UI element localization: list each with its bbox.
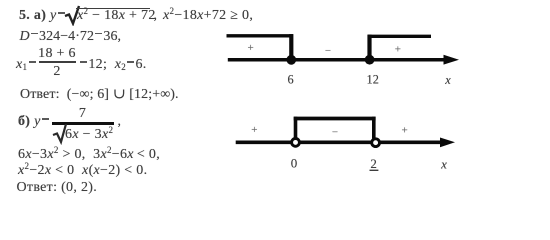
comma after radical bbox=[154, 9, 158, 23]
open circle at 2 bbox=[372, 139, 380, 147]
svg-text:+: + bbox=[395, 44, 401, 56]
svg-text:−: − bbox=[332, 127, 338, 139]
line 7 bbox=[18, 164, 147, 178]
thick fraction bar bbox=[52, 122, 113, 125]
svg-text:0: 0 bbox=[291, 155, 298, 170]
radicand x^2-18x+72 bbox=[77, 9, 156, 23]
line 8: answer b bbox=[17, 181, 98, 195]
radical sign line 1 bbox=[64, 4, 84, 26]
axis arrowhead bbox=[440, 138, 455, 148]
diagram 1: sign chart for x^2-18x+72 bbox=[220, 28, 465, 90]
svg-text:x: x bbox=[444, 73, 451, 87]
axis bbox=[228, 58, 448, 62]
box right wire bbox=[372, 117, 376, 139]
vinculum line 1 bbox=[76, 8, 150, 9]
=12; x2=6. bbox=[79, 58, 147, 72]
svg-text:+: + bbox=[247, 42, 253, 54]
line 3: x1 = (18+6)/2 = 12; x2=6. bbox=[16, 58, 37, 72]
diagram 2: sign chart for 3x^2-6x bbox=[230, 108, 460, 176]
svg-text:+: + bbox=[401, 124, 407, 136]
svg-text:−: − bbox=[325, 45, 331, 57]
axis arrowhead bbox=[444, 55, 460, 65]
axis bbox=[236, 141, 442, 145]
line 1: 5. a) y=sqrt(x^2-18x+72), condition bbox=[19, 9, 66, 23]
radical sign in denominator bbox=[52, 124, 70, 145]
second expression x^2-18x+72 >= 0, bbox=[163, 9, 253, 23]
upper-left plateau segment bbox=[227, 34, 294, 37]
svg-text:6: 6 bbox=[288, 73, 294, 87]
line 6 bbox=[18, 148, 160, 162]
line 5: b) y = 7 / sqrt(6x-3x^2), bbox=[18, 115, 50, 129]
small mark under label 2 bbox=[370, 169, 379, 171]
svg-text:2: 2 bbox=[370, 156, 377, 171]
numerator 7 bbox=[52, 107, 113, 121]
upper-right plateau segment bbox=[368, 35, 431, 38]
box left wire bbox=[294, 117, 298, 139]
svg-text:12: 12 bbox=[367, 73, 379, 87]
box top segment bbox=[294, 117, 376, 121]
fraction (18+6)/2 bbox=[38, 47, 76, 61]
line 4: answer a bbox=[20, 88, 179, 102]
comma after fraction bbox=[118, 115, 122, 129]
svg-text:x: x bbox=[440, 157, 447, 172]
open circle at 0 bbox=[292, 139, 300, 147]
rise wire at 12 bbox=[367, 35, 371, 60]
drop wire at 6 bbox=[289, 34, 293, 60]
line 2: D=324-4*72=36, bbox=[20, 30, 122, 44]
svg-text:+: + bbox=[251, 124, 257, 136]
filled dot at 6 bbox=[286, 55, 296, 65]
denominator 6x-3x^2 bbox=[65, 128, 113, 142]
filled dot at 12 bbox=[365, 55, 375, 65]
